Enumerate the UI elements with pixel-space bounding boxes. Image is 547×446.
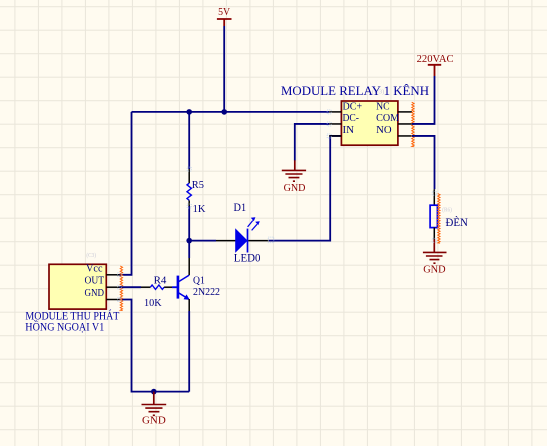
node top rail / R5 junction — [186, 109, 192, 115]
svg-text:GND: GND — [85, 288, 105, 299]
pin NC stub — [398, 111, 412, 113]
svg-text:Q1: Q1 — [193, 275, 205, 287]
pin Vcc stub — [106, 274, 119, 276]
svg-text:ĐÈN: ĐÈN — [446, 215, 469, 229]
transistor Q1 2N222 — [172, 258, 220, 311]
power port 220VAC — [417, 53, 454, 76]
svg-text:GND: GND — [423, 264, 445, 276]
error squiggle relay pins — [412, 102, 414, 147]
wire collector to LED node — [188, 241, 190, 258]
svg-text:1K: 1K — [193, 203, 206, 215]
wire DC- to ground — [295, 124, 329, 161]
svg-text:R5: R5 — [192, 179, 205, 191]
svg-text:COM: COM — [376, 113, 399, 124]
svg-text:HỒNG NGOẠI V1: HỒNG NGOẠI V1 — [25, 319, 104, 334]
pin IN stub — [329, 135, 341, 137]
pin NO stub — [398, 135, 412, 137]
svg-text:IN: IN — [343, 125, 355, 136]
power port 5V — [217, 6, 232, 26]
svg-text:220VAC: 220VAC — [417, 53, 454, 65]
svg-text:NO: NO — [376, 125, 392, 136]
pin OUT stub — [106, 286, 119, 288]
wire Vcc branch — [120, 112, 132, 275]
svg-text:(C3): (C3) — [86, 252, 96, 259]
pin GND stub — [106, 299, 119, 301]
svg-text:GND: GND — [142, 415, 166, 427]
svg-text:D1: D1 — [234, 202, 247, 214]
error squiggle module pins — [120, 266, 122, 311]
svg-text:5V: 5V — [218, 6, 230, 18]
pin DC- stub — [329, 123, 341, 125]
wire OUT to R4 — [120, 286, 142, 288]
resistor R4 — [141, 275, 172, 309]
module relay box — [281, 83, 429, 145]
ground GND lamp — [423, 239, 447, 275]
resistor R5 — [187, 112, 205, 241]
ground GND relay — [282, 160, 306, 194]
svg-text:MODULE RELAY 1 KÊNH: MODULE RELAY 1 KÊNH — [281, 83, 429, 98]
wire LED to IN pin — [269, 136, 342, 241]
node top rail / 5V junction — [221, 109, 227, 115]
svg-text:DC-: DC- — [343, 113, 360, 124]
svg-text:R4: R4 — [154, 275, 167, 287]
pin hotspot marks (pale blue) — [118, 110, 437, 302]
module THU PHAT HONG NGOAI box — [25, 252, 120, 334]
wire 220VAC to COM — [412, 76, 435, 124]
lamp DEN (R6) — [430, 189, 468, 240]
wire junction to LED — [189, 240, 216, 242]
wire GND branch — [120, 300, 190, 392]
wire top rail — [132, 111, 330, 113]
svg-text:NC: NC — [376, 101, 390, 112]
error squiggle lamp — [438, 194, 440, 244]
svg-text:LED0: LED0 — [234, 253, 261, 265]
pin COM stub — [398, 123, 412, 125]
svg-text:GND: GND — [284, 182, 306, 194]
wire emitter to bottom rail — [188, 311, 190, 392]
svg-text:DC+: DC+ — [343, 101, 363, 112]
pin DC+ stub — [329, 111, 341, 113]
node bottom rail / ground junction — [151, 389, 157, 395]
wire NO to lamp — [412, 136, 435, 189]
wire 5V vertical — [223, 26, 225, 112]
svg-text:(R6): (R6) — [442, 207, 452, 214]
node LED row junction — [186, 238, 192, 244]
led D1 LED0 — [216, 202, 269, 265]
ground GND bottom — [142, 392, 167, 427]
svg-text:Vcc: Vcc — [86, 264, 103, 275]
svg-text:2N222: 2N222 — [193, 286, 220, 298]
svg-text:OUT: OUT — [85, 275, 105, 286]
svg-text:10K: 10K — [144, 297, 162, 309]
